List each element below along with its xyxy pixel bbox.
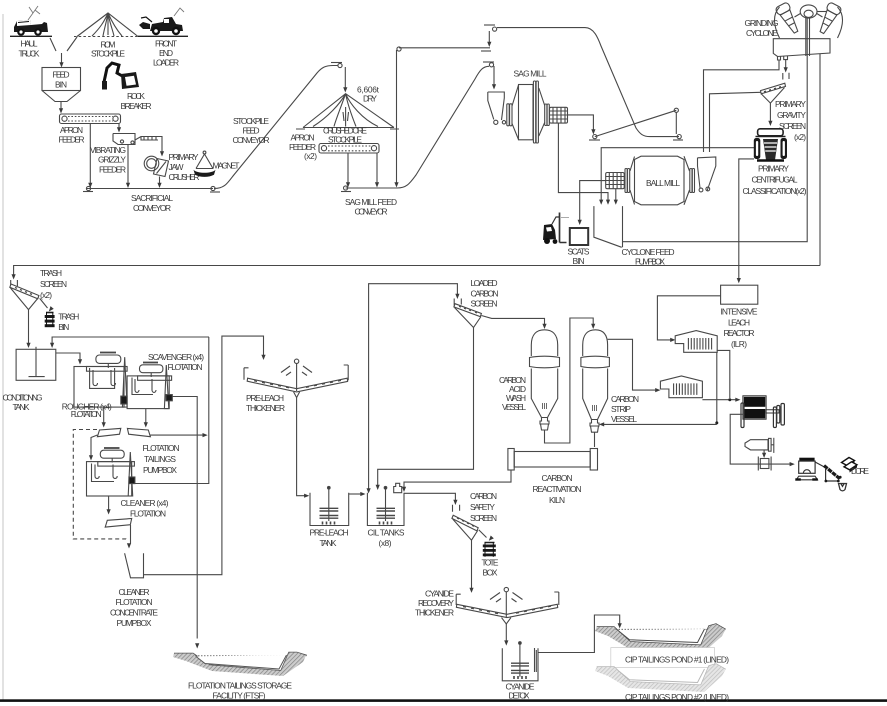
electrowinning cell 2 <box>660 376 702 398</box>
cleaner flotation concentrate pumpbox <box>125 553 144 578</box>
wire loaded screen underflow back to CIL <box>378 328 474 486</box>
wire trash screen oversize to trash bin <box>40 298 48 308</box>
svg-text:CYCLONE FEED: CYCLONE FEED <box>622 247 675 257</box>
wire thickener underflow to pre-leach tank <box>297 398 305 496</box>
svg-text:REACTIVATION: REACTIVATION <box>533 484 582 494</box>
wires apron feeder2 to SAG feed conveyor <box>347 153 349 183</box>
svg-text:CARBON: CARBON <box>611 394 639 404</box>
svg-text:TRUCK: TRUCK <box>19 49 40 59</box>
svg-text:FEED: FEED <box>243 126 260 136</box>
carbon safety screen <box>452 505 478 540</box>
svg-text:TAILINGS: TAILINGS <box>144 454 176 464</box>
tails riser to pre-leach thickener <box>144 336 264 575</box>
svg-text:CIP TAILINGS POND #1 (LINED): CIP TAILINGS POND #1 (LINED) <box>625 655 729 665</box>
forklift icon <box>543 213 569 245</box>
svg-text:CLEANER: CLEANER <box>119 587 150 597</box>
svg-text:PRIMARY: PRIMARY <box>169 152 199 162</box>
feed bin <box>42 68 81 102</box>
CIP tailings pond 1 <box>595 624 726 652</box>
svg-text:FEEDER: FEEDER <box>59 135 85 145</box>
svg-text:LEACH: LEACH <box>728 317 750 327</box>
primary jaw crusher <box>144 156 168 176</box>
intensive leach reactor ILR <box>721 285 758 304</box>
svg-text:APRON: APRON <box>60 125 83 135</box>
wire incline head down to recycle conveyor <box>488 31 490 43</box>
wire ball trommel oversize to scats bin <box>580 181 606 220</box>
cyclone manifold box <box>773 17 830 60</box>
svg-text:FRONT: FRONT <box>155 39 177 49</box>
wire detox overflow to CIP pond 1 <box>538 615 620 653</box>
svg-text:LOADED: LOADED <box>471 278 498 288</box>
svg-text:BREAKER: BREAKER <box>121 101 152 111</box>
svg-text:ROCK: ROCK <box>127 91 145 101</box>
wire scavenger tails to conc launder 2 <box>145 409 147 423</box>
svg-text:CONVEYOR: CONVEYOR <box>355 207 388 217</box>
page left border <box>2 14 4 700</box>
svg-text:STOCKPILE: STOCKPILE <box>328 134 362 144</box>
svg-text:REACTOR: REACTOR <box>724 328 755 338</box>
svg-text:TANK: TANK <box>320 538 337 548</box>
svg-text:FLOTATION TAILINGS STORAGE: FLOTATION TAILINGS STORAGE <box>188 681 292 691</box>
svg-text:SCREEN: SCREEN <box>40 279 67 289</box>
svg-text:END: END <box>159 48 173 58</box>
svg-text:JAW: JAW <box>169 162 184 172</box>
svg-text:(ILR): (ILR) <box>731 339 747 349</box>
crushed ore stockpile tent <box>296 94 399 129</box>
svg-text:PRIMARY: PRIMARY <box>775 99 806 109</box>
wire jaw crusher to conveyor <box>159 177 161 184</box>
wire cyclone overflow long line to trash screen <box>14 266 820 276</box>
wire grizzly underflow to conveyor <box>127 145 129 184</box>
apron feeder (x2) <box>319 144 379 154</box>
svg-text:PRE-LEACH: PRE-LEACH <box>246 393 284 403</box>
svg-text:CIL TANKS: CIL TANKS <box>368 527 405 537</box>
front end loader icon <box>138 8 188 36</box>
long scats incline conveyor <box>484 25 683 140</box>
induction furnace <box>795 458 818 481</box>
scats bin <box>570 228 588 245</box>
svg-text:FLOTATION: FLOTATION <box>130 509 166 519</box>
svg-text:PUMPBOX: PUMPBOX <box>143 465 177 475</box>
svg-text:VESSEL: VESSEL <box>611 414 637 424</box>
svg-text:TOTE: TOTE <box>482 557 499 567</box>
svg-text:RECOVERY: RECOVERY <box>418 598 454 608</box>
svg-text:(x2): (x2) <box>794 132 806 142</box>
svg-text:(x2): (x2) <box>304 151 317 161</box>
carbon dosing hopper on CIL <box>394 483 402 492</box>
conc launder 1 <box>97 428 120 436</box>
conc launder 3 <box>105 519 132 528</box>
svg-text:DORE: DORE <box>851 466 869 476</box>
sacrificial conveyor <box>83 186 215 191</box>
svg-text:GRIZZLY: GRIZZLY <box>98 155 126 165</box>
dore pour launder <box>815 462 842 482</box>
wire recycle line into conditioning tank <box>52 337 209 344</box>
svg-text:PRIMARY: PRIMARY <box>758 163 789 173</box>
wire launder1 to cleaner flotation <box>91 435 97 456</box>
stockpile feed conveyor incline <box>210 63 342 193</box>
svg-text:BALL MILL: BALL MILL <box>646 178 680 188</box>
svg-text:FLOTATION: FLOTATION <box>71 409 102 419</box>
svg-text:SAG MILL FEED: SAG MILL FEED <box>345 197 397 207</box>
wire apron feeder right end down to grizzly <box>118 124 120 129</box>
wire launder3 to cleaner conc pumpbox <box>130 525 132 544</box>
rock breaker icon <box>102 63 139 90</box>
svg-text:VESSEL: VESSEL <box>502 402 526 412</box>
SAG mill feed chute <box>488 92 506 124</box>
SAG mill body <box>507 81 550 143</box>
svg-text:BIN: BIN <box>55 79 67 89</box>
wire kiln to CIL (reactivated carbon) <box>404 470 511 488</box>
wire recycle conveyor down to SAG feed conveyor <box>396 50 398 183</box>
wire scavenger conc to FTSF line <box>172 397 197 639</box>
carbon strip vessel <box>581 330 610 432</box>
CIL tanks <box>367 486 404 525</box>
svg-text:CARBON: CARBON <box>470 491 497 501</box>
svg-text:BOX: BOX <box>483 568 498 578</box>
cyanide recovery thickener <box>456 587 559 624</box>
pebble transfer conveyor <box>589 108 678 140</box>
wire concentrator tails to pumpbox <box>601 148 754 200</box>
wire rougher tails to conc launder 1 <box>103 407 105 423</box>
cleaner flotation cell <box>87 448 135 496</box>
wire SAG trommel oversize to pebble conveyor <box>568 115 594 130</box>
svg-text:FEEDER: FEEDER <box>99 164 126 174</box>
eluate vessel <box>745 438 774 453</box>
primary centrifugal concentrator (x2) <box>754 129 787 161</box>
svg-text:THICKENER: THICKENER <box>246 403 285 413</box>
dashed bypass route <box>73 430 128 542</box>
wire press to eluate route <box>730 414 791 464</box>
wire pre-leach tank overflow to CIL <box>349 493 361 495</box>
svg-text:CARBON: CARBON <box>542 473 573 483</box>
wire cleaner conc to launder 3 <box>108 496 110 510</box>
wire loaded screen oversize to acid wash vessel <box>481 316 544 325</box>
wire CIL overflow to carbon safety screen <box>404 493 455 500</box>
dore bars <box>842 458 858 473</box>
cyclone feed pumpbox <box>594 206 623 247</box>
haul truck icon <box>10 6 52 36</box>
wire feed bin to apron feeder <box>60 102 62 110</box>
rougher flotation cell <box>74 353 127 408</box>
svg-text:INTENSIVE: INTENSIVE <box>721 307 758 317</box>
pre-leach thickener <box>244 359 348 398</box>
CIP tailings pond 2 (faded) <box>595 664 726 692</box>
wire screen underflow to concentrator <box>769 103 771 121</box>
wire launder2 to recycle riser <box>150 434 203 436</box>
trash bin <box>45 312 55 327</box>
slag pot <box>839 484 847 491</box>
apron feeder <box>60 114 121 124</box>
primary gravity screen <box>761 73 790 103</box>
wire apron feeder to sacrificial conveyor <box>89 124 91 184</box>
wire concentrator conc to ILR <box>739 159 754 279</box>
wire trash screen underflow to conditioning tank <box>28 310 30 344</box>
wire grizzly to jaw crusher <box>158 137 162 153</box>
svg-text:(x8): (x8) <box>379 538 392 548</box>
svg-text:FLOTATION: FLOTATION <box>143 443 180 453</box>
svg-text:SAG MILL: SAG MILL <box>514 69 547 79</box>
wire EW2 sludge to filter press <box>702 399 736 401</box>
CIP pond 1 label box <box>611 648 715 668</box>
transfer pump <box>758 457 771 471</box>
svg-text:CYCLONE: CYCLONE <box>746 28 778 38</box>
FTSF pond <box>173 653 307 677</box>
wire pumpbox to grinding cyclone (feed riser) <box>623 17 808 242</box>
carbon reactivation kiln <box>508 449 598 471</box>
page bottom border <box>0 699 887 702</box>
wire cyclone underflow to ball mill chute <box>704 60 780 152</box>
svg-text:CIP TAILINGS POND #2 (LINED): CIP TAILINGS POND #2 (LINED) <box>625 692 729 702</box>
magnet <box>194 151 216 177</box>
svg-text:TRASH: TRASH <box>40 268 62 278</box>
scats recycle conveyor (top) <box>397 47 491 51</box>
wire safety screen underflow to cyanide recovery thickener <box>471 540 473 588</box>
svg-text:CONCENTRATE: CONCENTRATE <box>110 608 158 618</box>
svg-text:PRE-LEACH: PRE-LEACH <box>310 527 349 537</box>
svg-text:SCAVENGER (x4): SCAVENGER (x4) <box>148 352 204 362</box>
wire SAG trommel undersize to pumpbox <box>558 123 608 200</box>
svg-text:FEED: FEED <box>53 69 70 79</box>
SAG mill feed conveyor <box>341 66 489 191</box>
svg-text:STRIP: STRIP <box>611 404 631 414</box>
ball mill body <box>625 156 695 205</box>
svg-text:CLASSIFICATION(x2): CLASSIFICATION(x2) <box>743 186 807 196</box>
svg-text:STOCKPILE: STOCKPILE <box>233 116 269 126</box>
conc launder 2 <box>127 428 150 436</box>
svg-text:VIBRATING: VIBRATING <box>90 145 126 155</box>
cyanide detox tank <box>502 642 538 681</box>
svg-text:DETOX: DETOX <box>509 690 530 700</box>
wire CIL loaded carbon to loaded carbon screen <box>369 284 458 489</box>
ROM stockpile tent <box>74 13 142 37</box>
svg-text:BIN: BIN <box>573 256 585 266</box>
wire screen oversize to ball mill chute <box>710 92 761 152</box>
wire conditioning tank to rougher flotation <box>56 353 80 360</box>
conditioning tank <box>16 347 56 381</box>
wire ILR to electrowinning 1 <box>657 296 720 340</box>
wire cyclone underflow to gravity screen chute <box>785 60 787 68</box>
svg-text:CONVEYOR: CONVEYOR <box>133 203 171 213</box>
svg-text:HAUL: HAUL <box>21 39 38 49</box>
filter press <box>741 396 784 428</box>
wire safety screen oversize to tote box <box>479 530 487 538</box>
svg-text:SCREEN: SCREEN <box>471 299 498 309</box>
svg-text:CLEANER (x4): CLEANER (x4) <box>121 498 169 508</box>
svg-text:PUMPBOX: PUMPBOX <box>635 256 665 266</box>
svg-text:BIN: BIN <box>58 322 69 332</box>
pre-leach tank <box>310 486 349 525</box>
svg-text:SAFETY: SAFETY <box>470 502 495 512</box>
loaded carbon screen <box>454 299 482 328</box>
recycle riser to conditioning tank <box>133 337 209 484</box>
grinding cyclone cluster <box>774 2 842 38</box>
svg-text:KILN: KILN <box>549 495 565 505</box>
svg-text:TRASH: TRASH <box>58 312 79 322</box>
scavenger flotation cell <box>127 363 172 409</box>
svg-text:(x2): (x2) <box>40 290 52 300</box>
svg-text:FLOTATION: FLOTATION <box>168 362 203 372</box>
svg-text:SCATS: SCATS <box>568 247 590 257</box>
svg-text:TANK: TANK <box>13 402 30 412</box>
svg-text:SCREEN: SCREEN <box>470 513 497 523</box>
trash screen <box>10 280 39 310</box>
ball mill trommel <box>606 173 625 189</box>
wire EW1 drain lines <box>717 350 730 422</box>
wire press filtrate return to strip vessel <box>604 423 717 425</box>
wire FTSF feed arrow <box>195 643 199 648</box>
svg-text:THICKENER: THICKENER <box>415 607 454 617</box>
carbon acid wash vessel <box>530 330 560 430</box>
SAG trommel screen <box>550 107 568 123</box>
svg-text:DRY: DRY <box>363 94 377 104</box>
wire ball trommel undersize to pumpbox <box>615 189 617 200</box>
wire head pulley to SAG chute <box>493 66 495 85</box>
ball mill feed chute <box>698 157 716 192</box>
wire cyclone overflow manifold down to trash line <box>819 54 821 266</box>
svg-text:CARBON: CARBON <box>471 288 499 298</box>
svg-text:FLOTATION: FLOTATION <box>116 597 153 607</box>
svg-text:GRAVITY: GRAVITY <box>777 110 806 120</box>
wire eluate vessel to pump <box>763 450 765 454</box>
wire acid wash to strip vessel carbon transfer <box>545 318 594 443</box>
svg-text:GRINDING: GRINDING <box>745 18 779 28</box>
svg-text:CYANIDE: CYANIDE <box>425 588 454 598</box>
SAG conveyor head pulley <box>483 62 494 67</box>
wire strip vessel top to electrowinning 2 <box>608 339 656 390</box>
svg-text:MAGNET: MAGNET <box>213 161 240 171</box>
electrowinning cell 1 <box>675 331 717 353</box>
svg-text:LOADER: LOADER <box>153 58 179 68</box>
wire truck/stockpile to feed bin <box>50 37 77 51</box>
wire thickener underflow to cyanide detox <box>505 624 507 641</box>
wire conveyor head to crushed ore stockpile <box>344 67 346 88</box>
svg-text:CONVEYOR: CONVEYOR <box>233 135 270 145</box>
tote box <box>483 542 496 557</box>
svg-text:FACILITY (FTSF): FACILITY (FTSF) <box>213 691 266 701</box>
svg-text:CONDITIONING: CONDITIONING <box>3 393 43 403</box>
svg-text:STOCKPILE: STOCKPILE <box>91 49 125 59</box>
svg-text:PUMPBOX: PUMPBOX <box>117 618 152 628</box>
wire strip vessel bottom to kiln <box>594 432 596 447</box>
svg-text:SACRIFICIAL: SACRIFICIAL <box>131 193 173 203</box>
vibrating grizzly feeder <box>113 134 158 145</box>
svg-text:CENTRIFUGAL: CENTRIFUGAL <box>752 175 798 185</box>
